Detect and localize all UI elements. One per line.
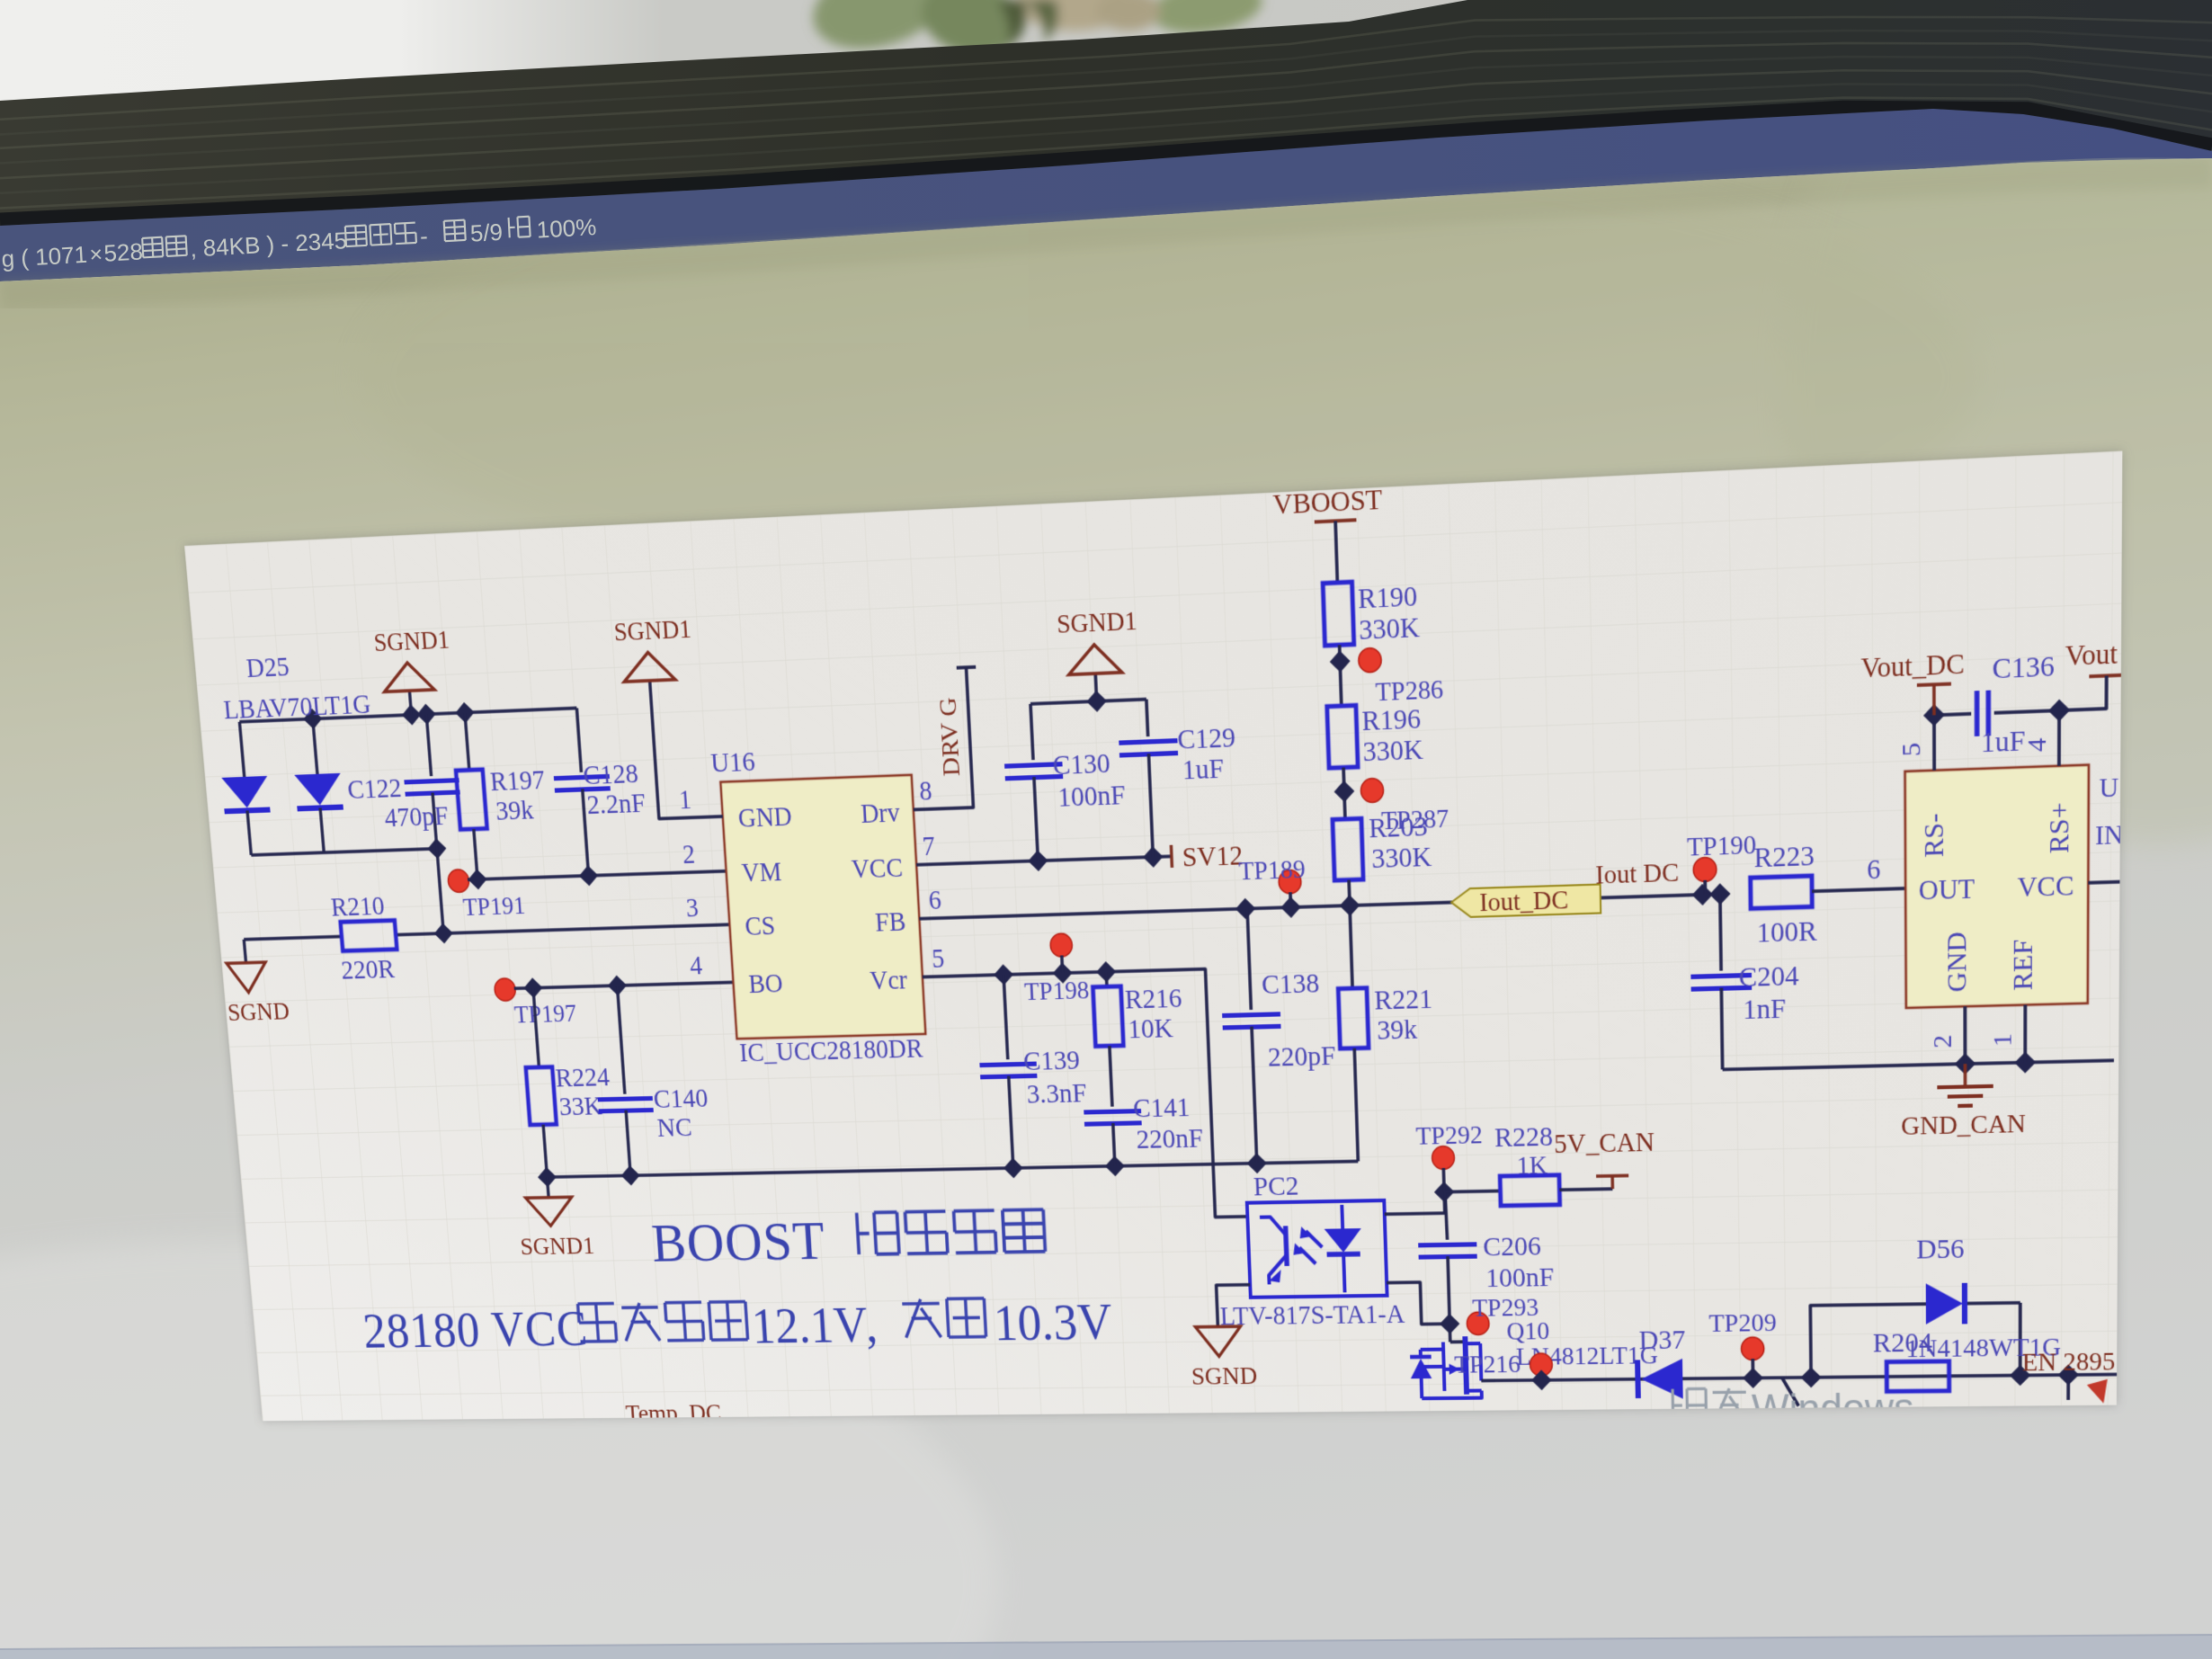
svg-text:C129: C129	[1177, 721, 1236, 755]
pin 3	[685, 893, 700, 923]
svg-text:2: 2	[1929, 1034, 1958, 1048]
label D25	[245, 651, 290, 683]
ground SGND (below PC2)	[1190, 1326, 1258, 1391]
svg-text:3: 3	[685, 893, 700, 923]
svg-text:330K: 330K	[1362, 734, 1424, 768]
wire VCC net (pin 7)	[915, 845, 1172, 875]
pin 2	[682, 840, 696, 870]
svg-text:Vout_DC: Vout_DC	[1860, 648, 1964, 684]
ground SGND	[221, 938, 290, 1027]
label LTV-817S-TA1-A	[1219, 1299, 1405, 1331]
svg-text:SGND1: SGND1	[613, 614, 692, 647]
svg-text:GND: GND	[1942, 932, 1973, 993]
wire GND_CAN net	[1722, 1049, 2114, 1080]
svg-text:R224: R224	[555, 1062, 611, 1093]
svg-text:470pF: 470pF	[383, 800, 449, 833]
resistor R210	[330, 890, 400, 986]
wire R190-R196	[1329, 645, 1351, 707]
svg-text:SGND: SGND	[1191, 1362, 1257, 1391]
svg-text:IN: IN	[2095, 820, 2122, 852]
svg-text:1K: 1K	[1516, 1151, 1548, 1181]
wire compensation rail	[537, 1151, 1358, 1188]
wire R223 to OUT	[1812, 853, 1905, 891]
svg-text:39k: 39k	[1377, 1013, 1418, 1046]
IC U16 UCC28180DR PFC controller	[709, 740, 927, 1068]
svg-text:C130: C130	[1052, 747, 1110, 780]
svg-text:2.2nF: 2.2nF	[586, 788, 647, 821]
label PC2	[1253, 1171, 1299, 1202]
capacitor C138	[1218, 906, 1340, 1164]
svg-text:TP216: TP216	[1454, 1351, 1521, 1379]
wire VBOOST	[1335, 521, 1337, 583]
svg-text:PC2: PC2	[1253, 1171, 1299, 1202]
label U (cut)	[2099, 772, 2118, 804]
svg-text:3.3nF: 3.3nF	[1026, 1077, 1087, 1109]
svg-text:10K: 10K	[1128, 1012, 1174, 1044]
pin 7	[922, 831, 936, 861]
pin 1 (REF)	[1988, 1005, 2025, 1064]
svg-text:Iout DC: Iout DC	[1595, 858, 1680, 890]
svg-text:Vout: Vout	[2065, 638, 2118, 673]
svg-text:U16: U16	[709, 746, 755, 779]
label IN (cut)	[2095, 820, 2124, 852]
net label Vout	[2059, 638, 2124, 710]
resistor R203	[1333, 810, 1433, 880]
wire 5V row	[1444, 1191, 1500, 1191]
svg-text:SGND1: SGND1	[373, 625, 450, 657]
svg-text:DRV G: DRV G	[934, 697, 966, 777]
svg-text:1uF: 1uF	[1182, 753, 1225, 786]
resistor R221	[1335, 903, 1437, 1162]
wire top sense	[1923, 699, 2070, 727]
svg-text:RS+: RS+	[2045, 802, 2075, 854]
wire VM net (pin 2)	[467, 861, 727, 890]
svg-text:R210: R210	[330, 890, 386, 922]
test point TP189	[1238, 854, 1307, 908]
capacitor C139	[975, 973, 1090, 1169]
svg-text:100nF: 100nF	[1485, 1262, 1555, 1293]
svg-text:VM: VM	[741, 857, 782, 888]
test point TP197	[494, 977, 577, 1030]
wire D25 bottom loop	[250, 838, 447, 865]
svg-text:OUT: OUT	[1919, 873, 1976, 906]
svg-text:4: 4	[2022, 737, 2052, 753]
diode D56	[1916, 1233, 1965, 1325]
net label 5V_CAN	[1554, 1128, 1655, 1160]
wire CS net (pin 3)	[243, 914, 730, 950]
svg-text:REF: REF	[2008, 939, 2038, 991]
svg-text:FB: FB	[874, 907, 906, 938]
svg-text:LBAV70LT1G: LBAV70LT1G	[222, 689, 371, 726]
note 28180 VCC start-up voltage	[361, 1295, 1114, 1360]
ground GND_CAN	[1901, 1063, 2026, 1142]
test point TP286	[1358, 645, 1443, 708]
diode D25-A	[217, 721, 274, 856]
svg-text:1: 1	[678, 785, 692, 816]
pin 4	[689, 951, 703, 981]
capacitor C129	[1117, 696, 1240, 858]
svg-text:12.1V: 12.1V	[750, 1298, 869, 1354]
svg-text:33K: 33K	[558, 1091, 603, 1121]
svg-text:-: -	[419, 222, 428, 249]
svg-text:BOOST: BOOST	[650, 1210, 827, 1274]
resistor R228	[1494, 1121, 1560, 1206]
capacitor C141	[1081, 1044, 1204, 1167]
resistor R196	[1327, 702, 1424, 769]
svg-text:1: 1	[1988, 1033, 2018, 1048]
svg-text:SGND: SGND	[227, 997, 290, 1027]
test point TP198	[1021, 932, 1090, 1006]
wire pin1 to SGND1	[650, 678, 723, 819]
svg-text:R216: R216	[1124, 983, 1182, 1015]
resistor R216	[1093, 969, 1184, 1046]
svg-text:g ( 1071: g ( 1071	[1, 241, 88, 272]
wire main bottom row	[1495, 1364, 2117, 1391]
svg-text:C136: C136	[1993, 650, 2055, 686]
wire PC2 pin2 to SGND	[1217, 1285, 1252, 1327]
svg-text:C140: C140	[653, 1083, 709, 1114]
svg-text:5/9: 5/9	[469, 219, 504, 247]
label LN4812LT1G	[1516, 1342, 1659, 1371]
net label EN 2895	[2022, 1347, 2116, 1400]
svg-text:RS-: RS-	[1919, 813, 1949, 858]
wire FB net (pin 6)	[919, 883, 1731, 929]
ground SGND1 (left)	[373, 625, 455, 716]
svg-text:R221: R221	[1374, 983, 1433, 1015]
pin 1	[678, 785, 692, 816]
svg-text:100nF: 100nF	[1057, 780, 1127, 814]
svg-text:D25: D25	[245, 651, 290, 683]
svg-text:D37: D37	[1638, 1325, 1685, 1355]
wire R228 to 5V_CAN	[1559, 1175, 1628, 1190]
svg-text:5V_CAN: 5V_CAN	[1554, 1128, 1655, 1160]
svg-text:TP292: TP292	[1415, 1120, 1483, 1151]
pin 4 (RS+)	[2022, 710, 2059, 767]
resistor R224	[520, 986, 616, 1177]
svg-text:100R: 100R	[1756, 915, 1817, 949]
svg-text:C204: C204	[1738, 959, 1798, 993]
capacitor C122	[342, 713, 471, 936]
svg-text:330K: 330K	[1359, 611, 1421, 647]
svg-text:TP189: TP189	[1238, 854, 1306, 886]
svg-text:TP190: TP190	[1687, 830, 1756, 862]
ground SGND1 (bottom)	[515, 1176, 595, 1261]
resistor R190	[1323, 579, 1421, 647]
svg-text:5: 5	[931, 944, 945, 974]
svg-text:GND: GND	[737, 802, 793, 834]
test point TP216	[1454, 1350, 1553, 1379]
label Q10	[1506, 1317, 1549, 1346]
diode D25-B	[290, 718, 347, 853]
wire PC2 pin3	[1387, 1281, 1459, 1334]
pin 8	[919, 776, 933, 807]
svg-text:×: ×	[89, 242, 103, 268]
svg-text:C128: C128	[582, 758, 638, 791]
resistor R223	[1750, 840, 1817, 949]
ground SGND1 (above C130)	[1057, 606, 1141, 702]
capacitor C128	[549, 706, 650, 877]
wire Drv to DRV_G	[905, 667, 983, 810]
svg-text:5: 5	[1897, 742, 1927, 757]
svg-text:C141: C141	[1132, 1092, 1190, 1123]
svg-text:EN 2895: EN 2895	[2022, 1347, 2116, 1377]
svg-text:39k: 39k	[495, 794, 534, 826]
wire PC2 pin4 to 5V net	[1384, 1182, 1455, 1215]
resistor R197	[451, 709, 552, 879]
net label VBOOST	[1272, 483, 1383, 523]
capacitor C140	[590, 983, 713, 1175]
pin 2 (GND)	[1929, 1006, 1966, 1065]
svg-text:100%: 100%	[536, 213, 597, 244]
wire BO net (pin 4)	[513, 972, 734, 999]
svg-text:R203: R203	[1369, 810, 1428, 843]
svg-text:D56: D56	[1916, 1233, 1964, 1264]
net label Vout_DC	[1860, 648, 1964, 718]
svg-text:1nF: 1nF	[1743, 993, 1786, 1025]
svg-text:TP191: TP191	[462, 891, 526, 922]
resistor R204	[1873, 1327, 1949, 1392]
capacitor C136	[1977, 650, 2055, 760]
wire VCC out	[2088, 882, 2119, 883]
svg-text:C122: C122	[346, 772, 402, 805]
test point TP191	[447, 868, 526, 923]
svg-text:220R: 220R	[340, 954, 396, 986]
svg-text:R197: R197	[489, 764, 546, 797]
svg-text:6: 6	[1867, 854, 1880, 886]
svg-text:IC_UCC28180DR: IC_UCC28180DR	[738, 1034, 924, 1068]
net flag Iout_DC	[1451, 884, 1601, 918]
capacitor C204	[1690, 892, 1800, 1070]
svg-text:TP197: TP197	[513, 999, 577, 1029]
IC U? current-sense amplifier	[1905, 765, 2089, 1008]
test point TP292	[1415, 1120, 1484, 1192]
svg-text:U: U	[2099, 772, 2118, 804]
svg-text:LTV-817S-TA1-A: LTV-817S-TA1-A	[1219, 1299, 1405, 1331]
svg-text:28180 VCC: 28180 VCC	[361, 1302, 590, 1360]
diode D37	[1637, 1325, 1686, 1399]
svg-text:10.3V: 10.3V	[993, 1295, 1113, 1352]
transistor Q10 MOSFET	[1442, 1324, 1495, 1395]
net label Iout DC	[1595, 858, 1680, 890]
test point TP190	[1687, 830, 1757, 895]
ground SGND1 (above U16)	[613, 614, 694, 682]
svg-text:SGND1: SGND1	[519, 1232, 595, 1261]
svg-text:2: 2	[682, 840, 696, 870]
svg-text:VCC: VCC	[851, 853, 904, 885]
svg-text:C138: C138	[1261, 968, 1319, 1000]
svg-text:R190: R190	[1358, 580, 1418, 615]
wire C130/C129 top	[1030, 689, 1146, 715]
diode Q10 body zener	[1410, 1349, 1482, 1398]
svg-text:528: 528	[103, 237, 144, 266]
wire D25 top rail (SGND1 net)	[238, 698, 577, 733]
wire jog stub	[1782, 1378, 1798, 1406]
svg-text:220nF: 220nF	[1136, 1123, 1204, 1155]
svg-text:8: 8	[919, 776, 933, 807]
test point TP287	[1360, 776, 1449, 837]
svg-text:Q10: Q10	[1506, 1317, 1549, 1346]
optocoupler PC2	[1247, 1200, 1387, 1298]
label 1N4148WT1G	[1905, 1333, 2061, 1363]
capacitor C130	[1002, 700, 1128, 862]
svg-text:TP209: TP209	[1708, 1308, 1777, 1338]
svg-text:CS: CS	[745, 911, 777, 941]
pin 5	[931, 944, 945, 974]
wire Vcr net (pin 5)	[922, 958, 1247, 1222]
svg-text:NC: NC	[656, 1112, 693, 1143]
svg-text:Drv: Drv	[860, 798, 901, 829]
svg-text:SGND1: SGND1	[1057, 606, 1138, 639]
svg-text:SV12: SV12	[1182, 840, 1244, 873]
svg-text:C206: C206	[1483, 1231, 1541, 1262]
svg-text:220pF: 220pF	[1267, 1040, 1336, 1073]
pin 6	[928, 886, 942, 916]
watermark	[1672, 1379, 2108, 1432]
svg-text:6: 6	[928, 886, 942, 916]
svg-text:R223: R223	[1753, 840, 1815, 874]
svg-text:C139: C139	[1022, 1045, 1080, 1076]
wire TP216 stem	[1539, 1372, 1543, 1380]
label LBAV70LT1G	[222, 689, 371, 726]
capacitor C206	[1416, 1190, 1555, 1324]
svg-text:4: 4	[689, 951, 703, 981]
net label Temp_DC (cut)	[625, 1399, 722, 1427]
svg-text:TP198: TP198	[1023, 976, 1090, 1006]
test point TP293	[1466, 1293, 1539, 1334]
svg-text:R228: R228	[1494, 1121, 1554, 1154]
svg-text:7: 7	[922, 831, 936, 861]
net label DRV_G	[934, 697, 966, 777]
svg-text:330K: 330K	[1371, 841, 1432, 874]
wire R196-R203	[1333, 767, 1356, 819]
svg-text:GND_CAN: GND_CAN	[1901, 1109, 2026, 1141]
svg-text:R196: R196	[1361, 702, 1422, 736]
svg-text:Iout_DC: Iout_DC	[1479, 886, 1569, 918]
test point TP209	[1708, 1308, 1777, 1378]
title BOOST control circuit	[650, 1206, 1047, 1273]
svg-text:BO: BO	[748, 968, 784, 999]
svg-text:VCC: VCC	[2017, 870, 2074, 904]
svg-text:1uF: 1uF	[1981, 725, 2026, 759]
pin 5 (RS-)	[1897, 715, 1934, 772]
wire R203 to FB	[1347, 880, 1351, 905]
net label SV12	[1171, 840, 1244, 874]
svg-text:Vcr: Vcr	[870, 965, 909, 995]
wire D56 branch	[1810, 1303, 2020, 1378]
